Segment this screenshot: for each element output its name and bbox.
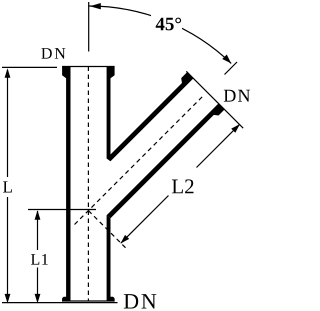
bottom extension line xyxy=(2,302,118,304)
pipe right wall upper segment with top socket xyxy=(107,67,115,162)
L dimension line upper segment xyxy=(7,70,9,177)
L1 bottom arrow xyxy=(35,294,41,304)
L1 top arrow xyxy=(35,210,41,220)
branch centerline (dashed 45) xyxy=(75,95,205,225)
perpendicular dashed extension through center (for L2) xyxy=(88,211,125,248)
label 45deg xyxy=(156,18,181,31)
arc arrowhead left (at vertical line) xyxy=(90,3,101,9)
label DN branch xyxy=(224,90,250,102)
pipe top mouth line xyxy=(62,66,115,68)
L dimension line lower segment xyxy=(7,197,9,300)
pipe bottom mouth line xyxy=(62,300,115,302)
L2 dimension line upper segment xyxy=(197,125,240,168)
vertical reference line for 45 angle xyxy=(88,2,90,52)
pipe left wall with top socket and bottom foot xyxy=(62,67,70,302)
45-degree arc xyxy=(88,6,231,63)
branch axis tick at arc end xyxy=(225,62,238,75)
pipe right wall lower segment with bottom foot xyxy=(107,215,115,301)
L2 upper arrow xyxy=(231,124,240,133)
L2 dimension line lower segment xyxy=(121,196,169,244)
branch end face line xyxy=(186,71,243,128)
L2 lower arrow xyxy=(120,235,129,244)
label L xyxy=(3,181,12,192)
L1 extension line xyxy=(28,209,96,211)
L1 dimension line lower segment xyxy=(37,268,39,301)
top extension line (L) xyxy=(2,66,57,68)
branch upper wall with socket xyxy=(107,72,194,161)
arc arrowhead at branch axis xyxy=(222,54,231,63)
white backing for 45 label xyxy=(151,12,182,33)
branch lower wall with socket xyxy=(107,103,225,218)
L top arrow xyxy=(5,68,11,78)
label L1 xyxy=(31,254,48,265)
vertical centerline of main pipe xyxy=(87,67,89,302)
L1 dimension line upper segment xyxy=(37,211,39,250)
label L2 xyxy=(172,179,194,193)
label DN top xyxy=(41,48,65,59)
L bottom arrow xyxy=(5,294,11,304)
label DN bottom xyxy=(124,294,157,308)
